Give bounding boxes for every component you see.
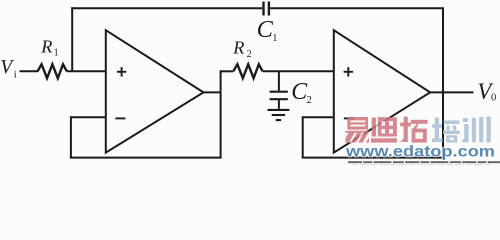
wire U1 feedback bottom rail [70,157,222,159]
wire R1 to op-amp U1 + input [67,70,106,72]
op-amp U1 plus sign [117,67,126,77]
svg-text:R: R [40,36,52,56]
op-amp U1 minus sign [115,117,125,119]
watermark char xun (blue) [463,117,491,143]
svg-text:1: 1 [54,47,59,58]
label C1 [257,16,278,44]
label R1 [40,36,58,58]
watermark fine print line [348,161,500,163]
label R2 [232,37,251,60]
label Vi [0,56,17,80]
wire vertical node at U1 output (up to R2, down to feedback) [220,70,222,157]
op-amp U2 triangle [334,30,430,152]
wire node to R2 [221,70,234,72]
resistor R2 [233,64,262,78]
svg-text:www.edatop.com: www.edatop.com [345,143,495,160]
watermark char yi (red) [345,117,369,143]
watermark char pei (blue) [432,118,460,143]
wire right vertical (C1 feedback, output node) [442,8,444,157]
op-amp U2 plus sign [344,67,353,77]
wire U2 output to V0 [430,91,473,93]
wire U1 feedback left vertical [70,116,72,157]
wire U2 feedback bottom rail [302,157,444,159]
wire top rail left segment [71,7,262,9]
wire U2 feedback left vertical [302,116,304,157]
svg-text:1: 1 [272,33,277,44]
watermark chinese characters [345,117,490,143]
svg-text:2: 2 [307,95,312,106]
watermark char tuo (red) [400,117,427,143]
svg-text:2: 2 [247,49,252,60]
resistor R1 [38,64,67,78]
label V0 [477,79,496,104]
capacitor C2 plates [270,92,288,100]
ground symbol [268,110,290,120]
label C2 [291,79,312,106]
svg-text:R: R [232,37,244,57]
capacitor C2 bottom lead [278,99,280,109]
wire U2 minus input [303,116,334,118]
capacitor C2 top lead [278,71,280,90]
svg-text:V: V [0,56,14,78]
wire U1 output [204,91,221,93]
svg-text:0: 0 [491,93,496,104]
svg-text:i: i [14,69,17,80]
svg-text:C: C [257,16,274,43]
op-amp U2 minus sign [344,117,354,119]
capacitor C1 [264,2,269,16]
wire top rail right segment [270,7,444,9]
wire left vertical from input node to top rail [71,7,73,71]
wire U1 minus input [71,116,106,118]
op-amp U1 triangle [106,30,204,152]
wire R2 to op-amp U2 + input [263,70,334,72]
wire input stub from Vi [20,70,39,72]
watermark char di (red) [371,117,397,142]
